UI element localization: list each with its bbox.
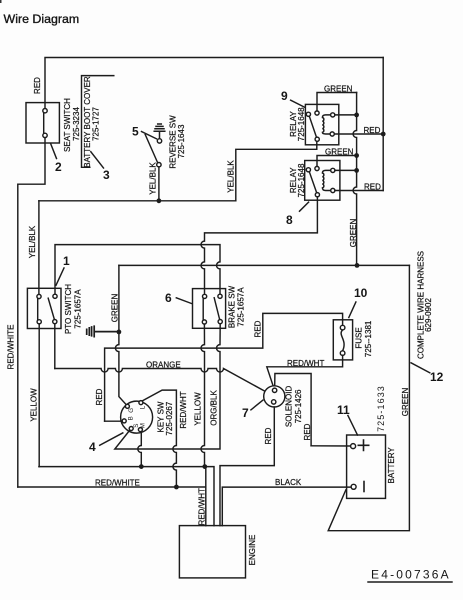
junction green riser coil9 top xyxy=(354,113,359,118)
pointer to harness xyxy=(411,363,430,373)
svg-text:10: 10 xyxy=(354,286,368,300)
key terminal B xyxy=(122,419,126,423)
fuse terminal top xyxy=(340,325,345,330)
PTO terminal BL xyxy=(37,320,41,324)
svg-text:RED/WHITE: RED/WHITE xyxy=(95,479,140,488)
scan corner mark xyxy=(0,0,2,3)
battery B11 xyxy=(222,385,396,526)
relay 8 blade xyxy=(309,172,316,193)
reverse switch terminal upper xyxy=(157,139,161,143)
PTO terminal TL xyxy=(37,294,41,298)
key switch body circle xyxy=(121,401,153,433)
relay 9 coil terminal bottom xyxy=(330,132,334,136)
brake switch box xyxy=(193,289,226,329)
node GREEN net xyxy=(87,263,410,404)
svg-text:BLACK: BLACK xyxy=(275,478,302,487)
fuse terminal bottom xyxy=(340,351,345,356)
svg-text:725-1727: 725-1727 xyxy=(92,107,101,141)
svg-text:725-1657A: 725-1657A xyxy=(74,289,83,329)
wire YEL/BLK bus xyxy=(39,200,236,202)
solenoid terminal bottom xyxy=(272,400,276,404)
svg-text:RED/WHITE: RED/WHITE xyxy=(7,325,16,370)
svg-text:RED: RED xyxy=(264,427,273,444)
PTO switch SW1 xyxy=(27,245,220,467)
wire relay 9 coil top to green riser xyxy=(335,114,357,116)
svg-text:GREEN: GREEN xyxy=(349,219,358,248)
brake switch SW6 xyxy=(115,285,246,466)
junction ground to green riser xyxy=(117,330,122,335)
wire RED/WHT to engine xyxy=(205,467,207,526)
svg-text:RED: RED xyxy=(364,182,381,191)
key terminal M xyxy=(138,428,142,432)
wire GREEN horizontal to harness xyxy=(119,264,410,266)
relay 9 blade xyxy=(309,116,316,137)
node RED key feed xyxy=(95,313,343,421)
pointer to fuse xyxy=(349,302,356,318)
svg-text:M: M xyxy=(139,423,146,428)
PTO switch blade xyxy=(48,298,54,319)
svg-text:YEL/BLK: YEL/BLK xyxy=(149,162,158,195)
svg-text:9: 9 xyxy=(281,89,288,103)
junction green horizontal riser xyxy=(355,263,360,268)
wire reverse switch to YEL/BLK bus xyxy=(158,167,160,201)
svg-text:2: 2 xyxy=(55,160,62,174)
solenoid terminal top xyxy=(272,388,276,392)
battery box xyxy=(347,435,386,498)
key terminal S xyxy=(129,427,133,431)
junction red riser coil9 bottom xyxy=(381,132,386,137)
pointer to solenoid xyxy=(251,400,263,410)
wire GREEN main riser with hops xyxy=(353,93,357,266)
battery plus terminal xyxy=(351,444,356,449)
solenoid label outline xyxy=(275,374,311,446)
junction yellow brake bus xyxy=(202,464,207,469)
svg-text:629-0902: 629-0902 xyxy=(424,298,433,332)
svg-text:12: 12 xyxy=(430,370,444,384)
key terminal G xyxy=(125,404,129,408)
svg-text:725--1381: 725--1381 xyxy=(364,320,373,357)
wire PTO BR to ORANGE line xyxy=(54,324,56,369)
wire ORG/BLK brake BR down to key S line xyxy=(115,324,220,449)
seat switch terminal bottom xyxy=(43,133,47,137)
wire RED top bus from seat switch to relay feed xyxy=(45,58,383,109)
svg-text:RED: RED xyxy=(303,423,312,440)
relay 8 terminal pivot xyxy=(306,168,310,172)
wire bottom bus xyxy=(39,467,214,526)
svg-text:SEAT SWITCH: SEAT SWITCH xyxy=(63,98,72,152)
svg-text:725-3234: 725-3234 xyxy=(72,107,81,141)
wire RED key B stub xyxy=(105,420,123,422)
svg-text:YEL/BLK: YEL/BLK xyxy=(227,160,236,193)
wire RED/WHITE bottom bus xyxy=(18,486,206,488)
svg-text:1: 1 xyxy=(63,254,70,268)
pointer to PTO switch xyxy=(56,268,64,285)
svg-text:Wire Diagram: Wire Diagram xyxy=(4,12,80,26)
svg-text:725-1648: 725-1648 xyxy=(297,107,306,141)
wire RED/WHT fuse bottom to solenoid xyxy=(267,355,343,388)
wire PTO TR to brake switch TR xyxy=(55,245,220,295)
drawing number underline xyxy=(368,581,452,583)
junction green riser relay8 common xyxy=(354,153,359,158)
wire YEL/BLK down to PTO switch xyxy=(38,201,40,294)
pointer to brake switch xyxy=(176,298,191,304)
relay 9 terminal common xyxy=(315,111,319,115)
battery minus sign xyxy=(363,482,365,492)
reverse switch SW5 chassis symbol xyxy=(154,124,165,139)
svg-text:725-1633: 725-1633 xyxy=(376,385,386,432)
svg-text:725-1648: 725-1648 xyxy=(297,163,306,197)
wire PTO BL down YELLOW xyxy=(38,324,40,467)
svg-text:RED: RED xyxy=(95,388,104,405)
relay U9 xyxy=(281,58,386,266)
ground chassis symbol xyxy=(87,326,119,336)
wire GREEN relay 8 common xyxy=(317,156,357,167)
junction YEL/BLK bus xyxy=(157,198,162,203)
svg-text:4: 4 xyxy=(89,440,96,454)
PTO switch box xyxy=(27,288,61,328)
brake terminal TR xyxy=(218,294,222,298)
pointer to key switch xyxy=(100,433,123,445)
svg-text:SOLENOID: SOLENOID xyxy=(285,386,294,428)
wire seat switch bottom to left rail xyxy=(18,138,45,487)
svg-text:RED/WHT: RED/WHT xyxy=(198,488,207,525)
svg-text:3: 3 xyxy=(103,168,110,182)
junction green riser coil8 top xyxy=(354,168,359,173)
fuse box xyxy=(333,320,352,360)
wire RED/WHT key L to bottom bus xyxy=(143,390,177,487)
relay 9 box xyxy=(305,104,338,144)
pointer to seat switch xyxy=(51,144,57,159)
brake terminal BL xyxy=(202,320,206,324)
relay 8 box xyxy=(305,161,340,201)
relay 8 terminal common xyxy=(315,166,319,170)
svg-text:GREEN: GREEN xyxy=(401,388,410,417)
svg-text:RED/WHT: RED/WHT xyxy=(287,359,324,368)
relay 8 coil terminal top xyxy=(331,168,335,172)
pointer to relay 8 xyxy=(300,202,309,211)
svg-text:7: 7 xyxy=(242,406,249,420)
wire YEL/BLK bus up to relay 9 xyxy=(236,142,317,201)
svg-text:725-1426: 725-1426 xyxy=(294,389,303,423)
PTO terminal TR xyxy=(53,294,57,298)
brake switch contact bar xyxy=(202,299,204,320)
pointer to boot cover xyxy=(91,152,104,168)
svg-text:ORG/BLK: ORG/BLK xyxy=(210,390,219,426)
wire relay 9 coil bottom to red riser xyxy=(334,133,383,135)
PTO switch contact bar xyxy=(37,299,39,320)
pointer to battery xyxy=(348,416,358,436)
svg-text:FUSE: FUSE xyxy=(355,327,364,348)
svg-text:E4-00736A: E4-00736A xyxy=(371,568,451,582)
svg-text:BATTERY: BATTERY xyxy=(387,447,396,484)
svg-text:725-0267: 725-0267 xyxy=(165,401,174,435)
svg-text:RED: RED xyxy=(253,320,262,337)
solenoid K7 xyxy=(220,374,351,526)
pointer to relay 9 xyxy=(291,100,305,107)
svg-text:ORANGE: ORANGE xyxy=(146,360,181,369)
svg-text:G: G xyxy=(128,408,135,413)
wire RED key B to fuse riser xyxy=(105,313,343,421)
fuse F10 xyxy=(267,286,373,388)
wire RED solenoid to engine xyxy=(220,407,274,526)
svg-text:RED: RED xyxy=(364,126,381,135)
junction red/white bus xyxy=(174,485,179,490)
junction M wire bus xyxy=(139,464,144,469)
solenoid body circle xyxy=(264,386,285,407)
svg-text:GREEN: GREEN xyxy=(325,148,354,157)
node ORANGE net xyxy=(55,360,265,391)
seat switch terminal top xyxy=(43,109,47,113)
relay U8 xyxy=(201,148,383,295)
wire BLACK battery minus xyxy=(222,487,351,525)
svg-text:BRAKE SW: BRAKE SW xyxy=(228,285,237,328)
wire RED solenoid to battery plus xyxy=(311,445,350,447)
svg-text:6: 6 xyxy=(165,291,172,305)
key terminal L xyxy=(139,401,143,405)
svg-text:11: 11 xyxy=(337,403,350,417)
seat switch contact bar xyxy=(43,113,45,133)
svg-text:PTO SWITCH: PTO SWITCH xyxy=(64,284,73,334)
svg-text:725-1643: 725-1643 xyxy=(177,124,186,158)
svg-text:B: B xyxy=(127,416,134,420)
wire relay 8 NO to brake switch TL xyxy=(201,197,317,294)
wire GREEN relay 9 common loop xyxy=(317,93,357,112)
svg-text:ENGINE: ENGINE xyxy=(248,535,257,566)
svg-text:YELLOW: YELLOW xyxy=(194,392,203,426)
wire relay 8 coil top to green riser xyxy=(335,169,357,171)
battery plus sign xyxy=(358,440,368,450)
svg-text:725-1657A: 725-1657A xyxy=(237,287,246,327)
key switch SW4 xyxy=(89,390,188,487)
wire M terminal down to bus xyxy=(138,432,142,467)
wire GREEN harness right side xyxy=(328,265,409,530)
wire relay 8 coil bottom to red riser xyxy=(335,190,383,192)
svg-text:RED: RED xyxy=(33,77,42,94)
brake switch blade xyxy=(214,298,219,320)
brake terminal TL xyxy=(203,294,207,298)
wire RED right riser xyxy=(382,58,384,191)
wire GREEN down to ground and key G xyxy=(115,265,126,404)
svg-text:GREEN: GREEN xyxy=(111,294,120,323)
svg-text:L: L xyxy=(139,405,146,409)
reverse switch terminal lower xyxy=(157,163,161,167)
PTO terminal BR xyxy=(53,320,57,324)
relay 9 coil xyxy=(322,115,330,134)
svg-text:5: 5 xyxy=(132,125,139,139)
battery boot cover bracket xyxy=(82,76,114,168)
relay 8 terminal NO xyxy=(315,193,319,197)
reverse switch blade xyxy=(145,135,157,163)
svg-text:YELLOW: YELLOW xyxy=(30,388,39,422)
pointer to reverse switch xyxy=(142,132,157,139)
wire YELLOW brake BL down to bus xyxy=(201,324,205,467)
svg-text:GREEN: GREEN xyxy=(324,85,353,94)
fuse element xyxy=(341,330,344,351)
relay 9 terminal NO xyxy=(315,137,319,141)
relay 9 coil terminal top xyxy=(331,113,335,117)
brake terminal BR xyxy=(218,320,222,324)
harness 12 xyxy=(328,251,443,531)
wire ORANGE horizontal with hops xyxy=(55,369,265,392)
seat switch SW2 box xyxy=(26,103,59,143)
svg-text:RED/WHT: RED/WHT xyxy=(179,391,188,428)
svg-text:YEL/BLK: YEL/BLK xyxy=(28,225,37,258)
svg-text:8: 8 xyxy=(286,213,293,227)
relay 8 coil xyxy=(322,170,330,190)
relay 8 coil terminal bottom xyxy=(331,188,335,192)
bottom buses and engine xyxy=(39,464,452,582)
relay 9 terminal pivot xyxy=(306,112,310,116)
battery minus terminal xyxy=(351,484,356,489)
engine box xyxy=(179,526,245,578)
